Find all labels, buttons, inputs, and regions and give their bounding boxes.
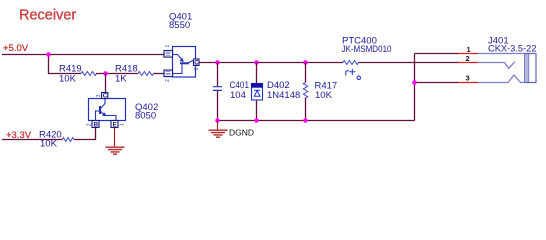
pin 3 box <box>194 59 200 65</box>
t-degree symbol <box>346 71 349 76</box>
svg-text:1N4148: 1N4148 <box>267 90 300 101</box>
pin C box <box>102 93 108 99</box>
pin1 lavender stub <box>478 53 525 55</box>
svg-text:3: 3 <box>96 94 102 97</box>
svg-text:3: 3 <box>466 74 470 83</box>
resistor R419 <box>59 64 96 85</box>
junction dot node base drive <box>103 71 108 76</box>
wire +3.3V to R420 <box>2 139 63 141</box>
NPN symbol inside <box>101 99 105 109</box>
wire R420 to Q402 base <box>74 128 96 140</box>
wire R419 to R418 <box>96 73 138 75</box>
junction dot D402 top <box>254 60 259 65</box>
pin 2 box <box>164 70 173 77</box>
resistor R420 <box>39 130 74 150</box>
svg-text:3: 3 <box>194 68 200 71</box>
svg-text:2: 2 <box>466 54 470 63</box>
jack body <box>525 54 529 83</box>
wire R418 to Q401 pin2 <box>154 73 165 75</box>
wire Q401 collector to node <box>199 62 343 64</box>
body box <box>89 99 126 121</box>
pin B box <box>92 121 99 128</box>
capacitor C401 <box>213 63 249 121</box>
svg-text:E: E <box>113 121 118 128</box>
wire down to Q402 collector <box>105 74 107 93</box>
svg-text:2: 2 <box>165 79 171 82</box>
wire +5V rail <box>2 54 164 56</box>
svg-text:1: 1 <box>165 45 171 48</box>
wire jack ground vertical <box>414 54 416 121</box>
svg-text:+5.0V: +5.0V <box>3 43 29 54</box>
svg-text:JK-MSMD010: JK-MSMD010 <box>342 44 392 55</box>
junction dot C401 top <box>215 60 220 65</box>
junction dot pin3 <box>412 80 417 85</box>
svg-text:2: 2 <box>87 123 93 126</box>
svg-text:Receiver: Receiver <box>19 8 76 24</box>
wire jack pin3 <box>415 82 459 84</box>
PTC resistor PTC400 <box>342 36 392 80</box>
pin1 red stub <box>458 53 478 55</box>
PNP symbol inside <box>173 55 184 61</box>
resistor R417 <box>303 63 337 121</box>
svg-text:CKX-3.5-22: CKX-3.5-22 <box>488 44 537 55</box>
transistor Q402 <box>87 93 159 129</box>
junction dot C401 bottom <box>215 118 220 123</box>
wire jack pin1 <box>415 53 459 55</box>
pin3 lavender stub and contact <box>478 75 525 83</box>
pin3 red stub <box>458 82 478 84</box>
connector J401 <box>458 36 537 83</box>
pin 1 box <box>164 51 173 58</box>
junction dot at +5V rail <box>46 52 51 57</box>
svg-text:104: 104 <box>230 90 246 101</box>
pin2 lavender stub and contact <box>478 62 515 69</box>
svg-text:1: 1 <box>467 45 471 54</box>
diode D402 <box>252 63 301 121</box>
svg-text:8050: 8050 <box>135 111 156 122</box>
ground DGND <box>209 121 255 138</box>
body box <box>173 47 196 78</box>
svg-text:C: C <box>194 60 199 66</box>
svg-text:B: B <box>94 121 99 128</box>
svg-text:10K: 10K <box>315 90 333 101</box>
bottom ground rail <box>218 120 415 122</box>
pin E box <box>111 121 118 128</box>
ground under Q402 <box>106 147 125 154</box>
junction dot R417 top <box>303 60 308 65</box>
resistor R418 <box>115 64 153 85</box>
svg-text:10K: 10K <box>59 74 77 85</box>
pin2 red stub <box>458 62 478 64</box>
wire Q402 emitter down <box>114 128 116 148</box>
wire PTC to jack pin2 <box>359 62 459 64</box>
svg-text:1: 1 <box>120 123 126 126</box>
wire from +5V rail down to resistor row <box>49 55 82 74</box>
svg-text:8550: 8550 <box>169 20 190 31</box>
junction dot D402 bottom <box>254 118 259 123</box>
svg-text:DGND: DGND <box>229 128 254 138</box>
transistor Q401 <box>164 12 200 83</box>
junction dot R417 bottom <box>303 118 308 123</box>
svg-text:1K: 1K <box>115 74 127 85</box>
